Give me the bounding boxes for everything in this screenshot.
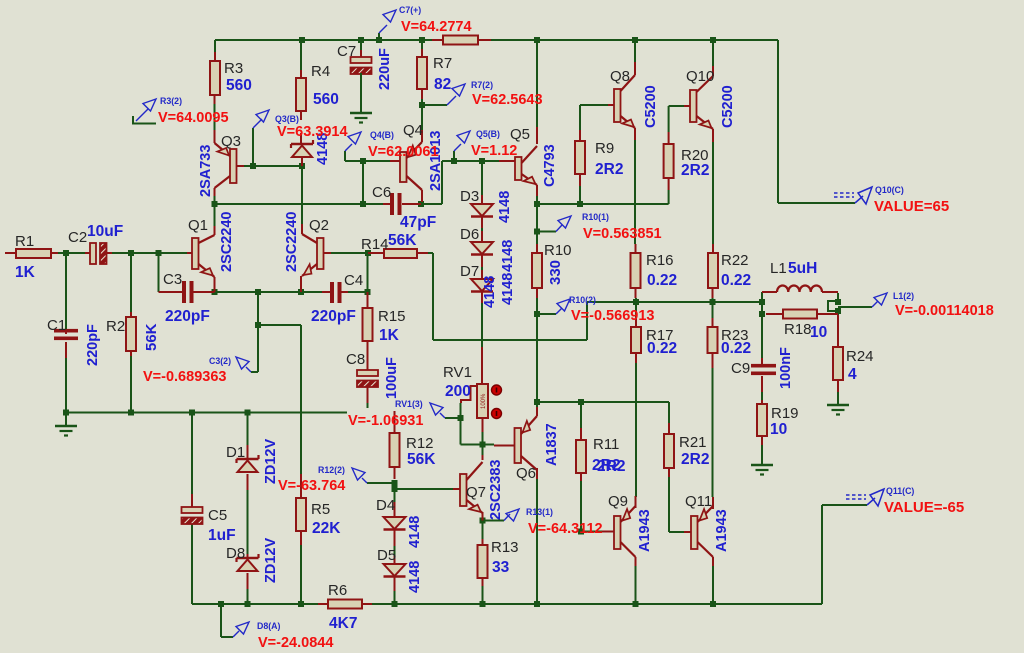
- svg-text:10: 10: [770, 421, 787, 438]
- svg-text:C5: C5: [208, 507, 227, 524]
- svg-text:100%: 100%: [481, 393, 487, 409]
- svg-text:0.22: 0.22: [647, 272, 677, 289]
- svg-text:4: 4: [848, 366, 857, 383]
- svg-text:R6: R6: [328, 582, 347, 599]
- svg-text:2SC2240: 2SC2240: [219, 212, 235, 272]
- svg-text:D8(A): D8(A): [257, 621, 281, 631]
- svg-text:C5200: C5200: [720, 85, 736, 128]
- svg-text:560: 560: [313, 91, 339, 108]
- svg-text:220uF: 220uF: [377, 48, 393, 90]
- svg-text:220pF: 220pF: [311, 308, 356, 325]
- svg-text:2R2: 2R2: [595, 161, 623, 178]
- svg-text:C4793: C4793: [542, 144, 558, 187]
- svg-text:220pF: 220pF: [85, 324, 101, 366]
- svg-text:R14: R14: [361, 236, 389, 253]
- svg-text:2SA1013: 2SA1013: [428, 131, 444, 191]
- svg-text:Q5(B): Q5(B): [476, 129, 500, 139]
- svg-text:L1: L1: [770, 260, 787, 277]
- svg-text:C7(+): C7(+): [399, 5, 421, 15]
- svg-text:560: 560: [226, 77, 252, 94]
- svg-text:4K7: 4K7: [329, 615, 357, 632]
- svg-text:R16: R16: [646, 252, 674, 269]
- svg-text:C3(2): C3(2): [209, 356, 231, 366]
- svg-text:5uH: 5uH: [788, 260, 817, 277]
- svg-text:22K: 22K: [312, 520, 341, 537]
- svg-text:Q4(B): Q4(B): [370, 130, 394, 140]
- svg-text:100nF: 100nF: [778, 347, 794, 389]
- svg-text:ZD12V: ZD12V: [263, 439, 279, 484]
- svg-text:56K: 56K: [388, 232, 417, 249]
- svg-text:100uF: 100uF: [384, 357, 400, 399]
- svg-text:R3: R3: [224, 60, 243, 77]
- svg-text:V=62.5643: V=62.5643: [472, 92, 543, 108]
- svg-text:R10: R10: [544, 242, 572, 259]
- svg-text:Q9: Q9: [608, 493, 628, 510]
- svg-text:D1: D1: [226, 444, 245, 461]
- svg-text:A1943: A1943: [637, 509, 653, 552]
- svg-text:2R2: 2R2: [597, 458, 625, 475]
- svg-text:V=64.0095: V=64.0095: [158, 110, 229, 126]
- svg-text:VALUE=65: VALUE=65: [874, 198, 949, 215]
- svg-text:220pF: 220pF: [165, 308, 210, 325]
- svg-text:C6: C6: [372, 184, 391, 201]
- svg-text:R18: R18: [784, 321, 812, 338]
- svg-text:Q4: Q4: [403, 122, 423, 139]
- svg-text:R12: R12: [406, 435, 434, 452]
- svg-text:C5200: C5200: [643, 85, 659, 128]
- svg-text:10: 10: [810, 324, 827, 341]
- svg-text:D8: D8: [226, 545, 245, 562]
- svg-text:Q1: Q1: [188, 217, 208, 234]
- svg-text:D5: D5: [377, 547, 396, 564]
- svg-text:0.22: 0.22: [647, 340, 677, 357]
- svg-text:V=1.12: V=1.12: [471, 143, 517, 159]
- svg-text:56K: 56K: [143, 323, 160, 351]
- svg-text:C8: C8: [346, 351, 365, 368]
- svg-text:C1: C1: [47, 317, 66, 334]
- svg-text:33: 33: [492, 559, 510, 576]
- svg-text:V=-24.0844: V=-24.0844: [258, 635, 333, 651]
- svg-text:C3: C3: [163, 271, 182, 288]
- svg-text:V=-64.3112: V=-64.3112: [528, 521, 603, 537]
- svg-text:330: 330: [547, 260, 564, 285]
- svg-text:R9: R9: [595, 140, 614, 157]
- svg-text:V=0.563851: V=0.563851: [583, 226, 662, 242]
- svg-text:Q6: Q6: [516, 465, 536, 482]
- svg-text:82: 82: [434, 76, 451, 93]
- svg-text:R4: R4: [311, 63, 330, 80]
- svg-text:R7: R7: [433, 55, 452, 72]
- svg-text:2SA733: 2SA733: [198, 145, 214, 197]
- svg-text:V=-1.06931: V=-1.06931: [348, 413, 423, 429]
- svg-text:V=-0.689363: V=-0.689363: [143, 369, 226, 385]
- svg-text:2R2: 2R2: [681, 451, 709, 468]
- svg-text:V=63.3914: V=63.3914: [277, 124, 348, 140]
- svg-text:R19: R19: [771, 405, 799, 422]
- svg-text:R13(1): R13(1): [526, 507, 553, 517]
- svg-text:V=62.0061: V=62.0061: [368, 144, 439, 160]
- svg-text:RV1(3): RV1(3): [395, 399, 423, 409]
- svg-text:4148: 4148: [497, 191, 513, 223]
- svg-text:10uF: 10uF: [87, 223, 123, 240]
- svg-text:V=-63.764: V=-63.764: [278, 478, 345, 494]
- svg-text:Q8: Q8: [610, 68, 630, 85]
- svg-text:R7(2): R7(2): [471, 80, 493, 90]
- svg-text:R5: R5: [311, 501, 330, 518]
- svg-text:1K: 1K: [379, 327, 400, 344]
- svg-text:D7: D7: [460, 263, 479, 280]
- svg-text:4148: 4148: [407, 561, 423, 593]
- svg-text:R22: R22: [721, 252, 749, 269]
- svg-text:56K: 56K: [407, 451, 436, 468]
- svg-text:R13: R13: [491, 539, 519, 556]
- svg-text:R15: R15: [378, 308, 406, 325]
- svg-text:4148: 4148: [500, 273, 516, 305]
- svg-text:4148: 4148: [407, 516, 423, 548]
- svg-text:A1943: A1943: [714, 509, 730, 552]
- svg-text:R10(2): R10(2): [569, 295, 596, 305]
- svg-text:200: 200: [445, 383, 471, 400]
- svg-text:C7: C7: [337, 43, 356, 60]
- svg-text:V=64.2774: V=64.2774: [401, 19, 472, 35]
- svg-text:D3: D3: [460, 188, 479, 205]
- svg-text:2SC2240: 2SC2240: [284, 212, 300, 272]
- svg-text:ZD12V: ZD12V: [263, 538, 279, 583]
- svg-text:Q10: Q10: [686, 68, 714, 85]
- svg-text:D4: D4: [376, 497, 395, 514]
- svg-text:Q11: Q11: [685, 493, 712, 510]
- svg-text:V=-0.00114018: V=-0.00114018: [895, 303, 994, 319]
- svg-text:RV1: RV1: [443, 364, 472, 381]
- svg-text:Q3: Q3: [221, 133, 241, 150]
- svg-text:R21: R21: [679, 434, 707, 451]
- svg-text:0.22: 0.22: [721, 272, 751, 289]
- svg-text:1uF: 1uF: [208, 527, 236, 544]
- svg-text:VALUE=-65: VALUE=-65: [884, 499, 964, 516]
- svg-text:C9: C9: [731, 360, 750, 377]
- svg-text:Q3(B): Q3(B): [275, 114, 299, 124]
- svg-text:Q2: Q2: [309, 217, 329, 234]
- svg-text:R10(1): R10(1): [582, 212, 609, 222]
- svg-text:2R2: 2R2: [681, 162, 709, 179]
- svg-text:C2: C2: [68, 229, 87, 246]
- svg-text:Q10(C): Q10(C): [875, 185, 904, 195]
- svg-text:Q11(C): Q11(C): [886, 486, 914, 496]
- svg-text:Q7: Q7: [466, 484, 486, 501]
- svg-text:1K: 1K: [15, 264, 36, 281]
- svg-text:4148: 4148: [500, 240, 516, 272]
- svg-text:R11: R11: [593, 436, 619, 453]
- svg-text:V=-0.566913: V=-0.566913: [571, 308, 654, 324]
- svg-text:L1(2): L1(2): [893, 291, 914, 301]
- svg-text:A1837: A1837: [544, 423, 560, 466]
- svg-text:4148: 4148: [482, 276, 498, 308]
- svg-text:R24: R24: [846, 348, 874, 365]
- svg-text:C4: C4: [344, 272, 363, 289]
- svg-text:0.22: 0.22: [721, 340, 751, 357]
- svg-text:R12(2): R12(2): [318, 465, 345, 475]
- svg-text:R2: R2: [106, 318, 125, 335]
- svg-text:D6: D6: [460, 226, 479, 243]
- svg-text:2SC2383: 2SC2383: [488, 460, 504, 520]
- svg-text:R1: R1: [15, 233, 34, 250]
- svg-text:47pF: 47pF: [400, 214, 436, 231]
- svg-text:R3(2): R3(2): [160, 96, 182, 106]
- svg-text:Q5: Q5: [510, 126, 530, 143]
